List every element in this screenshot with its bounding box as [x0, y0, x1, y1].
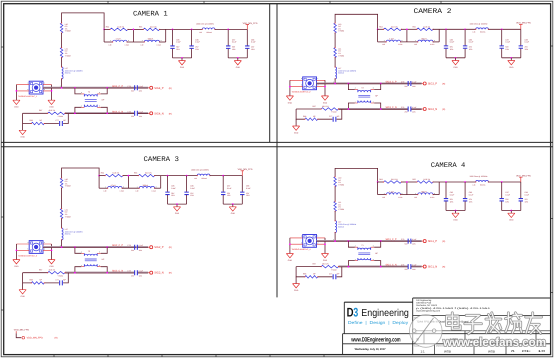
junction	[501, 28, 503, 30]
junction	[510, 210, 512, 212]
svg-text:10%: 10%	[139, 89, 143, 92]
ferrite L41_4 0 ohm	[334, 201, 337, 211]
wire: C1 input loop	[62, 13, 105, 30]
section divider horizontal upper	[1, 141, 553, 143]
wire	[61, 188, 63, 209]
ground	[293, 126, 300, 134]
svg-text:4: 4	[301, 77, 302, 80]
wire: stage1 right leg	[127, 176, 129, 189]
capacitor C87_4 0.1uF	[500, 199, 504, 201]
connector right pin wires	[43, 85, 52, 91]
svg-text:Y700M: Y700M	[338, 30, 344, 33]
wire	[464, 29, 466, 45]
wire	[445, 29, 447, 45]
port SIG1_P	[422, 240, 446, 244]
svg-text:p (585) 429-1550 f (585: p (585) 429-1550 f (585) 429-1551	[416, 307, 492, 310]
capacitor C77_3	[60, 280, 63, 285]
svg-text:10%: 10%	[412, 85, 416, 88]
svg-text:10%: 10%	[190, 194, 194, 197]
wire: C2 input loop	[335, 14, 378, 29]
svg-text:4.7uH: 4.7uH	[389, 38, 395, 41]
svg-text:0.1uF: 0.1uF	[505, 193, 510, 196]
svg-text:0.41A: 0.41A	[157, 43, 162, 46]
wire	[334, 33, 336, 48]
wire	[445, 182, 447, 198]
wire	[104, 28, 110, 30]
resistor R64_4	[384, 181, 402, 184]
ground	[293, 284, 300, 292]
svg-text:5: 5	[301, 241, 302, 244]
capacitor C77_4	[333, 274, 336, 279]
svg-text:C79: C79	[401, 81, 404, 84]
svg-text:64.9 1%: 64.9 1%	[113, 172, 120, 175]
wire	[227, 49, 229, 58]
junction	[227, 29, 229, 31]
wire: signal net from connector	[317, 240, 422, 242]
svg-text:NP: NP	[40, 279, 43, 282]
svg-text:6 OF 10: 6 OF 10	[511, 349, 546, 353]
svg-text:3: 3	[353, 306, 358, 320]
svg-text:C79: C79	[401, 238, 404, 241]
wire	[155, 187, 161, 189]
resistor R65_2	[417, 28, 433, 31]
svg-text:10%: 10%	[412, 268, 416, 271]
svg-text:49.9 1%: 49.9 1%	[49, 109, 56, 112]
capacitor C88_2 0.1uF	[519, 46, 523, 48]
svg-text:TMS6NG-KMRT5-C_4: TMS6NG-KMRT5-C_4	[292, 248, 311, 251]
svg-text:1.60A: 1.60A	[125, 43, 130, 46]
capacitor C88_1 0.1uF	[245, 46, 249, 48]
wire: bottom branch	[296, 267, 342, 277]
capacitor C79_1 0.1uF	[135, 85, 138, 90]
wire: stage1 right leg	[132, 29, 134, 42]
wire	[295, 119, 297, 126]
capacitor C85_3 0.1uF	[165, 192, 169, 194]
inductor L48_3 4.7uH	[108, 186, 123, 188]
wire	[401, 194, 418, 196]
svg-text:800mA: 800mA	[207, 31, 213, 34]
svg-text:GND: GND	[20, 295, 25, 298]
svg-text:(R): (R)	[442, 108, 445, 111]
wire	[501, 201, 503, 210]
junction	[501, 181, 503, 183]
junction	[464, 28, 466, 30]
ground	[48, 100, 55, 108]
junction	[186, 175, 188, 177]
ferrite bead L47_3 1000 Ohm	[62, 228, 63, 240]
svg-text:R87: R87	[313, 263, 316, 266]
ferrite bead L47_4 1000 Ohm	[335, 221, 336, 233]
svg-text:SIG1_C_N: SIG1_C_N	[386, 264, 397, 267]
wire	[186, 176, 188, 192]
svg-text:0.1uF: 0.1uF	[412, 106, 416, 109]
capacitor C87_1 0.1uF	[226, 46, 230, 48]
port SIG3_N	[422, 108, 446, 112]
junction	[348, 83, 350, 85]
svg-text:D3 Engineering: D3 Engineering	[416, 299, 432, 302]
wire	[61, 33, 63, 48]
svg-text:49.9 1%: 49.9 1%	[49, 269, 56, 272]
wire: stage1 left leg	[377, 29, 379, 42]
svg-text:Y700M: Y700M	[58, 274, 64, 277]
wire	[99, 175, 105, 177]
capacitor C85_2 0.1uF	[444, 46, 448, 48]
power flag VDD_MN_FPD	[516, 22, 531, 30]
junction	[380, 240, 382, 242]
ferrite bead L47_1 1000 Ohm	[62, 67, 63, 79]
wire	[16, 333, 21, 337]
svg-text:1: 1	[137, 185, 138, 188]
capacitor C86_2 0.1uF	[463, 46, 467, 48]
svg-text:0.1uF: 0.1uF	[227, 187, 232, 190]
svg-text:L46: L46	[194, 177, 197, 180]
wire	[237, 58, 239, 61]
power flag VDD_MN_FPD	[238, 168, 253, 176]
ground	[48, 260, 55, 268]
wire: connector left gnd	[289, 238, 291, 254]
junction	[176, 203, 178, 205]
junction	[380, 266, 382, 268]
svg-text:10%: 10%	[195, 48, 199, 51]
svg-text:3: 3	[373, 244, 374, 247]
svg-text:Y700M: Y700M	[338, 208, 344, 211]
wire	[501, 49, 503, 58]
wire	[520, 201, 522, 210]
ferrite L41_1 0 ohm	[60, 48, 63, 58]
junction	[289, 243, 291, 245]
inductor L49_3 100uH	[139, 186, 154, 188]
svg-text:Y700M: Y700M	[338, 54, 344, 57]
svg-text:L46: L46	[473, 183, 476, 186]
svg-text:Rochester, NY 14623: Rochester, NY 14623	[416, 304, 438, 307]
wire	[241, 195, 243, 204]
connector right pin wires	[317, 238, 326, 244]
wire: bottom branch	[23, 273, 69, 283]
svg-text:WSB: WSB	[444, 349, 451, 353]
wire	[210, 175, 242, 177]
resistor R87_2	[321, 108, 338, 111]
junction	[167, 175, 169, 177]
svg-text:CAMERA 3: CAMERA 3	[144, 156, 180, 164]
svg-text:5: 5	[28, 88, 29, 91]
ground	[234, 61, 241, 69]
svg-text:GND: GND	[453, 219, 458, 222]
wire: stage2 right leg	[438, 29, 440, 42]
svg-text:NP: NP	[40, 119, 43, 122]
wire	[61, 240, 63, 247]
svg-text:Define | Design | Deploy: Define | Design | Deploy	[348, 320, 409, 325]
wire: signal net from connector	[317, 82, 422, 84]
capacitor C87_3 0.1uF	[221, 192, 225, 194]
svg-text:2: 2	[373, 258, 374, 261]
svg-text:www.d3engineering.com: www.d3engineering.com	[416, 309, 440, 312]
junction: chain tap	[61, 87, 63, 89]
svg-text:T3: T3	[361, 86, 363, 89]
svg-text:NP: NP	[313, 273, 316, 276]
wire: C3 input loop	[62, 168, 100, 178]
svg-text:Y700M: Y700M	[338, 183, 344, 186]
svg-text:(R): (R)	[55, 337, 58, 340]
svg-text:0.41A: 0.41A	[152, 190, 157, 193]
inductor L48_4 4.7uH	[386, 193, 401, 195]
ground	[173, 207, 180, 215]
svg-text:GND: GND	[20, 136, 25, 139]
connector left pin wires	[290, 238, 303, 244]
svg-text:L49: L49	[414, 43, 417, 46]
svg-text:L49: L49	[414, 196, 417, 199]
svg-text:C79: C79	[127, 85, 130, 88]
svg-text:R64: R64	[101, 172, 104, 175]
wire: signal net from connector	[43, 246, 148, 248]
svg-text:10%: 10%	[412, 111, 416, 114]
wire	[334, 211, 336, 220]
ferrite L40_1 0 ohm	[60, 23, 63, 33]
watermark logo circle	[410, 315, 443, 348]
svg-text:NP: NP	[337, 115, 340, 118]
junction	[232, 203, 234, 205]
wire: lower signal net	[23, 112, 48, 114]
capacitor C78_2 0.1uF	[408, 107, 411, 112]
resistor R88_1	[31, 122, 44, 125]
wire: connector left gnd	[289, 80, 291, 96]
capacitor C88_4 0.1uF	[519, 199, 523, 201]
svg-text:NP: NP	[337, 273, 340, 276]
svg-text:GND: GND	[180, 66, 185, 69]
svg-text:800mA: 800mA	[338, 225, 344, 228]
svg-text:SIG2_P: SIG2_P	[154, 246, 164, 249]
wire	[378, 181, 384, 183]
ground	[19, 130, 26, 138]
svg-text:1: 1	[44, 241, 45, 244]
junction	[51, 249, 53, 251]
wire	[167, 195, 169, 204]
capacitor C78_3 0.1uF	[135, 270, 138, 275]
svg-text:GND: GND	[175, 212, 180, 215]
svg-text:GND: GND	[509, 219, 514, 222]
svg-text:www.elecfans.com: www.elecfans.com	[442, 335, 546, 349]
wire	[61, 79, 63, 88]
wire	[433, 41, 439, 43]
ground	[321, 96, 328, 104]
wire	[520, 29, 522, 45]
svg-text:C77: C77	[329, 273, 332, 276]
wire	[401, 41, 418, 43]
wire: stage1 right leg	[406, 29, 408, 42]
capacitor C86_1 0.1uF	[189, 46, 193, 48]
junction	[455, 57, 457, 59]
svg-text:1: 1	[333, 238, 334, 241]
svg-text:2: 2	[373, 100, 374, 103]
capacitor C78_4 0.1uF	[408, 264, 411, 269]
junction: filter input	[98, 175, 100, 177]
svg-text:5: 5	[301, 84, 302, 87]
wire: signal net from connector	[43, 87, 148, 89]
wire	[160, 41, 166, 43]
svg-text:100uH: 100uH	[421, 190, 427, 193]
svg-text:SIG4_C_N: SIG4_C_N	[112, 110, 123, 113]
ferrite L40_3 0 ohm	[60, 178, 63, 188]
svg-text:0.1uF: 0.1uF	[469, 41, 474, 44]
svg-text:100uH: 100uH	[148, 38, 154, 41]
wire	[433, 194, 439, 196]
svg-text:GND: GND	[49, 265, 54, 268]
junction	[74, 87, 76, 89]
svg-text:Y700M: Y700M	[65, 30, 71, 33]
ground	[13, 260, 20, 268]
svg-text:www.D3Engineering.com: www.D3Engineering.com	[351, 336, 401, 343]
wire: transformer top links	[348, 84, 380, 90]
svg-text:0.1uF: 0.1uF	[251, 41, 256, 44]
svg-text:0.1uF: 0.1uF	[525, 193, 530, 196]
wire	[99, 187, 108, 189]
wire: transformer top links	[75, 88, 107, 94]
svg-text:SIG1_P: SIG1_P	[428, 240, 438, 243]
wire	[433, 28, 476, 30]
svg-text:0.1uF: 0.1uF	[412, 264, 416, 267]
wire	[22, 124, 24, 131]
svg-text:C77: C77	[329, 115, 332, 118]
svg-text:1000 Ohm @ 100MHz: 1000 Ohm @ 100MHz	[191, 169, 209, 172]
svg-text:R88: R88	[303, 273, 306, 276]
svg-text:0.1uF: 0.1uF	[195, 41, 200, 44]
svg-text:SIG4_C_P: SIG4_C_P	[112, 85, 123, 88]
svg-text:1: 1	[415, 39, 416, 42]
wire: stage1 left leg	[103, 29, 105, 42]
junction: filter input	[377, 181, 379, 183]
svg-text:(R): (R)	[442, 266, 445, 269]
wire: transformer bottom links	[75, 267, 107, 273]
svg-text:(R): (R)	[442, 240, 445, 243]
svg-text:0.1uF: 0.1uF	[505, 41, 510, 44]
svg-text:10%: 10%	[171, 194, 175, 197]
inductor L49_4 100uH	[418, 193, 433, 195]
wire: connector right gnd	[324, 238, 326, 254]
connector left pin wires	[16, 85, 29, 91]
inductor L49_1 100uH	[144, 40, 159, 42]
svg-text:R64: R64	[379, 25, 382, 28]
svg-text:49.9 1%: 49.9 1%	[322, 105, 329, 108]
wire	[445, 201, 447, 210]
power flag VDD_MN_FPD	[516, 174, 531, 182]
svg-text:Y700M: Y700M	[65, 185, 71, 188]
svg-text:(R): (R)	[169, 112, 172, 115]
wire: bottom branch	[296, 109, 342, 119]
junction: filter input	[377, 28, 379, 30]
ferrite L40_2 0 ohm	[334, 23, 337, 33]
svg-text:L49: L49	[141, 43, 144, 46]
capacitor C77_1	[60, 121, 63, 126]
svg-text:1.60A: 1.60A	[398, 43, 403, 46]
wire	[215, 28, 247, 30]
wire	[501, 29, 503, 45]
connector right pin wires	[43, 244, 52, 250]
wire: transformer bottom links	[75, 107, 107, 113]
svg-text:0.1uF: 0.1uF	[139, 110, 143, 113]
junction	[380, 108, 382, 110]
svg-text:Y700M: Y700M	[331, 268, 337, 271]
wire	[128, 28, 143, 30]
svg-text:R65: R65	[413, 178, 416, 181]
svg-text:GND: GND	[288, 259, 293, 262]
resistor R65_3	[138, 174, 154, 177]
svg-text:C78: C78	[401, 106, 404, 109]
svg-text:10%: 10%	[139, 249, 143, 252]
port SIG3_P	[422, 82, 446, 86]
capacitor C79_2 0.1uF	[408, 81, 411, 86]
wire	[122, 187, 139, 189]
capacitor C88_3 0.1uF	[240, 192, 244, 194]
svg-text:C77: C77	[56, 279, 59, 282]
junction	[133, 29, 135, 31]
svg-text:C78: C78	[127, 110, 130, 113]
svg-text:Wednesday, July 19, 2017: Wednesday, July 19, 2017	[355, 348, 386, 351]
junction	[74, 246, 76, 248]
coax connector J2	[292, 77, 317, 94]
svg-text:WSB: WSB	[488, 349, 495, 353]
junction	[106, 272, 108, 274]
coax connector J1	[18, 81, 43, 98]
svg-text:10%: 10%	[450, 48, 454, 51]
junction	[237, 57, 239, 59]
wire	[241, 176, 243, 192]
junction: chain tap	[61, 246, 63, 248]
wire	[510, 211, 512, 214]
svg-text:(R): (R)	[169, 272, 172, 275]
ground	[229, 207, 236, 215]
wire: cap gnd rail	[228, 57, 247, 59]
svg-text:4: 4	[81, 250, 82, 253]
resistor R88_2	[305, 118, 318, 121]
wire: cap gnd rail	[446, 210, 465, 212]
svg-text:1: 1	[318, 235, 319, 238]
junction	[445, 181, 447, 183]
svg-text:10%: 10%	[251, 48, 255, 51]
wire: stage1 left leg	[98, 176, 100, 189]
section divider vertical center	[276, 4, 278, 298]
ferrite L40_4 0 ohm	[334, 177, 337, 187]
CAMERA 3 circuit group	[13, 168, 253, 298]
svg-text:0.1uF: 0.1uF	[525, 41, 530, 44]
wire: stage1 left leg	[377, 182, 379, 195]
wire	[155, 175, 198, 177]
svg-text:Y700M: Y700M	[65, 54, 71, 57]
ground	[178, 61, 185, 69]
wire: stage1 right leg	[406, 182, 408, 195]
svg-text:10%: 10%	[139, 115, 143, 118]
svg-text:GND: GND	[288, 101, 293, 104]
wire	[222, 176, 224, 192]
ground	[19, 290, 26, 298]
ground	[508, 61, 515, 69]
svg-text:4: 4	[355, 244, 356, 247]
wire: cap gnd rail	[446, 57, 465, 59]
junction	[348, 240, 350, 242]
svg-text:4: 4	[28, 81, 29, 84]
CAMERA 2 circuit group	[286, 14, 531, 134]
svg-text:T2: T2	[88, 250, 90, 253]
junction	[181, 57, 183, 59]
svg-text:1.60A: 1.60A	[120, 190, 125, 193]
svg-text:800mA: 800mA	[65, 72, 71, 75]
wire: stage2 right leg	[438, 182, 440, 195]
junction	[406, 181, 408, 183]
svg-text:64.9 1%: 64.9 1%	[424, 178, 431, 181]
svg-text:3: 3	[99, 91, 100, 94]
svg-text:1.60A: 1.60A	[398, 196, 403, 199]
capacitor C85_4 0.1uF	[444, 199, 448, 201]
svg-text:GND: GND	[509, 66, 514, 69]
wire	[378, 194, 387, 196]
